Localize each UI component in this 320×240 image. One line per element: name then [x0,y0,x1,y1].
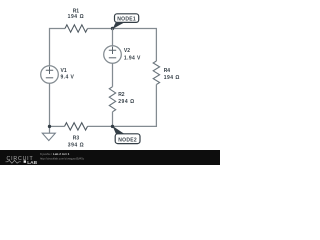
voltage source V2 [104,46,122,64]
svg-text:NODE1: NODE1 [117,16,136,22]
wire: R4 bottom to bottom-right corner to R3 [88,85,157,127]
svg-text:1.94 V: 1.94 V [124,55,141,61]
junction dot at NODE2 [111,125,114,128]
svg-text:V1: V1 [61,68,67,74]
svg-text:R4: R4 [164,68,171,74]
wire: NODE1 junction to top-right corner down to R4 [113,29,157,62]
node NODE2 [113,126,141,144]
wire: R3 to ground junction [50,125,65,127]
CircuitLab logo [6,156,38,166]
svg-text:V2: V2 [124,48,130,54]
svg-text:R2: R2 [118,92,125,98]
wire: V1 bottom to ground junction [49,83,51,126]
svg-text:194 Ω: 194 Ω [68,14,85,20]
svg-text:LAB: LAB [27,160,37,165]
resistor R3 [65,123,88,130]
watermark bar [0,150,220,165]
resistor R1 [65,25,88,32]
resistor R2 [109,87,115,112]
wire: NODE1 junction down to V2 [112,29,114,46]
junction dot at NODE1 [111,27,114,30]
ground [42,126,55,140]
wire: R2 bottom to NODE2 junction [112,112,114,127]
wire: V2 bottom to R2 [112,63,114,86]
resistor R4 [153,61,159,85]
svg-text:R3: R3 [73,135,80,141]
svg-text:394 Ω: 394 Ω [68,142,85,148]
svg-text:9.4 V: 9.4 V [61,75,75,81]
wire: R1 to NODE1 junction [88,28,113,30]
svg-text:http://circuitlab.com/c/uwgypd: http://circuitlab.com/c/uwgypd3jf45c [40,156,85,160]
svg-text:294 Ω: 294 Ω [118,99,135,105]
voltage source V1 [41,66,59,84]
svg-text:NODE2: NODE2 [118,137,137,143]
svg-text:194 Ω: 194 Ω [164,75,180,81]
junction dot at ground [48,125,51,128]
wire: V1 top lead, left vertical and top-left segment to R1 [50,29,66,66]
node NODE1 [113,14,139,29]
